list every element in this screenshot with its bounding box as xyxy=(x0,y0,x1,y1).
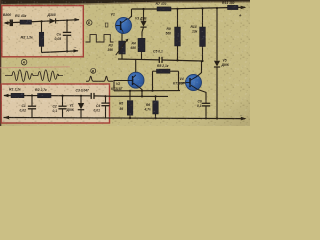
capacitor C4 xyxy=(105,96,107,102)
node p2d xyxy=(104,95,106,97)
wire input (top, sloped) xyxy=(5,20,79,23)
transistor V4 xyxy=(186,75,202,91)
waveform A baseline xyxy=(5,75,63,77)
page top dark band xyxy=(0,0,250,4)
resistor R2 (inset2) xyxy=(38,93,52,97)
node p2b xyxy=(61,95,63,97)
transistor V2 xyxy=(128,72,144,88)
resistor R14 xyxy=(202,8,204,27)
node p2c xyxy=(80,95,82,97)
capacitor C3 (series) xyxy=(90,93,92,99)
diode V5 xyxy=(216,8,218,61)
resistor R5 xyxy=(129,91,131,101)
capacitor C5 (series) xyxy=(158,57,160,63)
waveform V narrow pulses xyxy=(86,76,113,81)
fuse B xyxy=(10,20,13,27)
transistor V1 xyxy=(131,9,133,17)
node V circled xyxy=(91,68,96,73)
inset panel 1 (top-left, red border) xyxy=(2,6,84,57)
resistor R1 (inset2) xyxy=(11,93,24,97)
arrow input 2 left xyxy=(3,94,8,97)
node j2 xyxy=(66,19,68,21)
wire node A horizontal xyxy=(114,90,180,92)
page left edge shadow xyxy=(0,0,1,126)
node j3 xyxy=(66,50,68,52)
diode V1 (inset2) xyxy=(80,96,82,103)
small mark near V1 left xyxy=(105,23,108,27)
wire ground rail xyxy=(4,118,246,119)
diode D305 xyxy=(50,18,56,23)
capacitor Cn xyxy=(66,20,68,32)
wire R2 vertical xyxy=(41,21,43,32)
node B circled xyxy=(87,20,92,25)
paper grain overlay xyxy=(0,0,250,126)
resistor R11 xyxy=(228,5,239,9)
wire top rail xyxy=(132,7,246,9)
resistor R7 xyxy=(157,7,171,11)
wire R3 bottom xyxy=(121,54,123,59)
resistor R9 xyxy=(177,9,179,27)
waveform A burst 2 xyxy=(38,70,59,82)
node p2a xyxy=(31,94,33,96)
waveform A burst 1 xyxy=(12,70,33,82)
node A circled xyxy=(21,59,27,65)
wire R2 to bottom xyxy=(41,46,43,52)
resistor R8 xyxy=(152,71,154,91)
resistor R6 xyxy=(155,96,157,100)
resistor R1 (inset1) xyxy=(20,20,32,24)
waveform B square pulses xyxy=(86,35,114,42)
wire R8 to V4 base xyxy=(179,71,186,90)
diode V3 xyxy=(143,9,145,21)
arrow output top right xyxy=(75,18,80,21)
arrow bottom right xyxy=(74,49,79,52)
wire V4 collector xyxy=(198,61,202,76)
arrow rail top right xyxy=(241,6,247,10)
wire V4 emitter xyxy=(198,89,207,102)
arrow input left xyxy=(3,21,8,24)
inset panel 2 (bottom-left, red border) xyxy=(1,84,109,123)
faint crease line xyxy=(0,67,70,68)
capacitor C2 xyxy=(62,96,64,106)
capacitor C1 xyxy=(31,96,33,106)
resistor R4 xyxy=(138,38,145,51)
node j1 xyxy=(40,20,42,22)
wire input 2 xyxy=(4,95,91,97)
wire V2 collector xyxy=(135,59,137,72)
wire V2 base left xyxy=(114,81,128,91)
wire R4 bottom xyxy=(141,52,143,60)
wire node B horizontal xyxy=(110,95,168,97)
capacitor C6 xyxy=(202,102,210,104)
wire V1 base down xyxy=(121,34,123,41)
wire bottom (inset1) xyxy=(42,51,79,53)
resistor R2 (inset1) xyxy=(39,32,44,46)
arrow rail right xyxy=(241,117,247,121)
potentiometer R3 xyxy=(119,41,126,54)
wire V2 emitter down xyxy=(139,87,142,97)
arrow rail left xyxy=(4,116,9,119)
wire mid rail xyxy=(118,59,202,61)
